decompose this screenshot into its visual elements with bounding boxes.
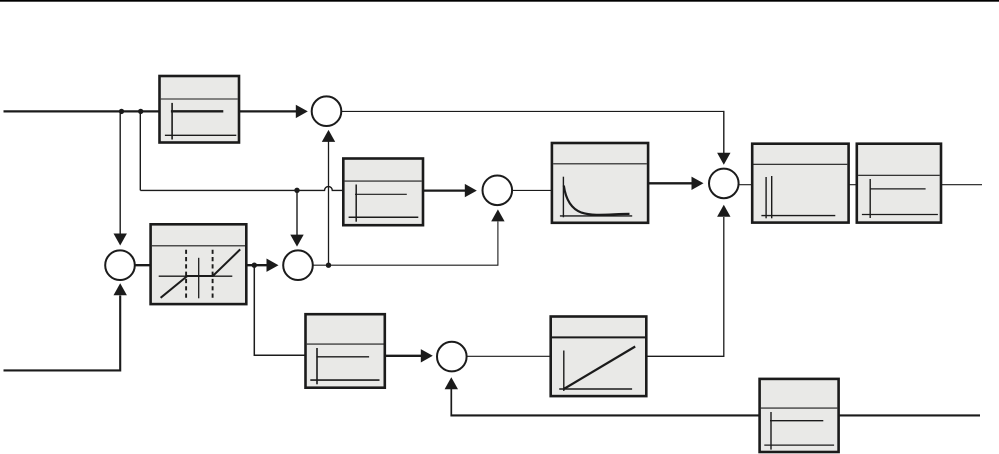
- wire: J2 down then right at y=190 with hop over vertical line: [140, 111, 343, 190]
- arrowhead into S3 bottom: [717, 205, 730, 217]
- arrowhead into S3 top: [717, 153, 730, 165]
- wire: J3 down to sum S5: [296, 190, 298, 236]
- arrowhead into S4 bottom: [114, 283, 127, 295]
- block G1 (step block top-left): [160, 76, 240, 143]
- arrowhead into S6 bottom: [445, 377, 458, 389]
- block G7 (impulse block): [752, 144, 848, 223]
- wire: J1 down to sum S4: [119, 111, 121, 234]
- wire: S5 output right then up into S2: [313, 222, 498, 266]
- block G6 (step block bottom): [306, 314, 385, 388]
- junction dot J2: [138, 109, 143, 114]
- wire: G7 to G8: [849, 184, 857, 186]
- junction dot J1: [119, 109, 124, 114]
- arrowhead into S6 left: [421, 349, 433, 362]
- arrowhead into S5 top: [290, 235, 303, 247]
- wire: J4 down then right to block G6: [254, 265, 305, 355]
- wire: G4 output to sum S3: [648, 182, 692, 184]
- wire: J5 up to sum S1: [328, 141, 330, 265]
- arrowhead into S3 left: [692, 177, 704, 190]
- arrowhead into S5 left: [267, 259, 279, 272]
- wire: G1 output to sum S1: [239, 110, 298, 112]
- sum S6: [437, 342, 467, 372]
- sum S1: [312, 96, 342, 126]
- block G3 (dead-zone block): [151, 224, 247, 304]
- wire: feedback from right through block G9 then to S6: [450, 414, 980, 416]
- top border bar: [0, 0, 999, 2]
- wire: G5 output right then up into S3: [646, 217, 724, 356]
- block G8 (step block right): [857, 144, 941, 223]
- block G4 (exponential decay block): [552, 143, 648, 223]
- sum S3: [709, 169, 739, 199]
- wire: G6 output to sum S6: [385, 355, 422, 357]
- wire: S6 output to block G5: [466, 355, 550, 357]
- wire: S3 output to block G7: [738, 184, 752, 186]
- block G2 (step block, second): [343, 159, 423, 226]
- junction dot J4: [252, 263, 257, 268]
- junction dot J5: [326, 263, 331, 268]
- wire: G3 output to sum S5: [246, 264, 268, 266]
- wire: G2 output to sum S2: [423, 189, 467, 191]
- block G5 (ramp block): [551, 317, 647, 397]
- arrowhead into S2 bottom: [491, 209, 504, 221]
- wire: S4 output to block G3: [135, 264, 151, 266]
- junction dot J3: [294, 188, 299, 193]
- sum S5: [283, 250, 313, 280]
- sum S2: [483, 176, 513, 206]
- wire: input z at bottom-left then up into S4: [4, 296, 121, 371]
- wire: S1 output right then down to sum S3: [341, 110, 724, 112]
- wire: G8 output dangling right: [941, 184, 982, 186]
- arrowhead into S1 left: [296, 105, 308, 118]
- wire: S2 output to block G4: [512, 189, 552, 191]
- arrowhead into S1 bottom: [322, 130, 335, 142]
- sum S4: [105, 250, 135, 280]
- wire: input w at y=111: [4, 110, 160, 112]
- arrowhead into S4 top: [114, 234, 127, 246]
- arrowhead into S2 left: [465, 184, 477, 197]
- block G9 (step block bottom-right): [760, 379, 839, 452]
